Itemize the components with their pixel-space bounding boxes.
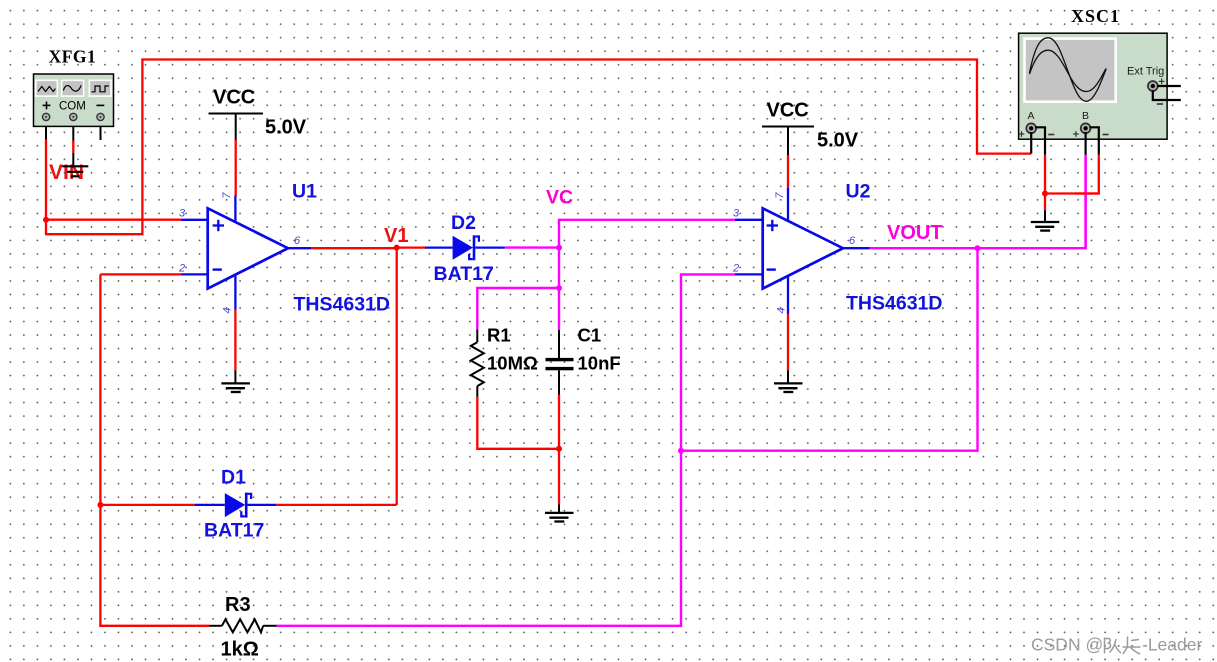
wire ext trig plus stub — [1157, 85, 1180, 87]
wire U1 inverting input to feedback column — [100, 273, 181, 275]
wire VCC2 supply to U2 pin7 — [787, 155, 789, 190]
wire scope B minus to ground net — [1045, 155, 1099, 194]
watermark CJK glyph 1 — [1105, 638, 1122, 654]
wire net V1: junction to D2 anode — [397, 246, 425, 248]
wire net VC: top of C1 stub — [558, 288, 560, 330]
svg-text:10MΩ: 10MΩ — [487, 353, 538, 374]
XFG1 minus terminal — [97, 113, 104, 120]
op-amp U1 triangle body — [208, 208, 288, 288]
XSC1 channel A minus hook — [1035, 127, 1045, 155]
label 1k ohm of R3 — [221, 639, 259, 661]
svg-text:BAT17: BAT17 — [434, 263, 494, 285]
svg-text:R3: R3 — [225, 594, 251, 616]
svg-text:VCC: VCC — [767, 100, 809, 122]
op-amp U1 pin2 stub — [181, 273, 209, 275]
junction node VOUT — [975, 245, 981, 251]
junction node R1/C1 bottom — [556, 446, 562, 452]
wire U1 pin4 to ground — [234, 310, 236, 371]
oscilloscope XSC1 box — [1019, 33, 1168, 139]
label 10nF of C1 — [578, 353, 621, 374]
junction node R1/C1 top — [556, 285, 562, 291]
U1 pin number 6 — [294, 235, 301, 247]
label U1 — [292, 181, 317, 203]
label XSC1 — [1071, 6, 1120, 26]
ground below C1 — [545, 504, 574, 521]
XFG1 sine-wave button — [62, 80, 84, 96]
ground at U1 pin4 — [221, 370, 250, 392]
svg-text:THS4631D: THS4631D — [294, 294, 390, 316]
ground at scope — [1031, 210, 1060, 230]
svg-text:U1: U1 — [292, 181, 317, 203]
op-amp U1 output stub pin6 — [288, 247, 311, 249]
label V1 — [384, 225, 408, 247]
op-amp U2 output stub pin6 — [843, 247, 870, 249]
ground at U2 pin4 — [774, 370, 803, 392]
diode D2 cathode pin — [475, 246, 504, 248]
wire XFG1 COM red segment — [72, 141, 74, 153]
wire net VOUT: U2 output to scope B — [870, 155, 1086, 248]
svg-text:3: 3 — [733, 208, 740, 220]
label XFG1 — [49, 47, 97, 67]
label R3 — [225, 594, 251, 616]
junction node V1 — [394, 245, 400, 251]
XFG1 plus label — [43, 102, 51, 110]
capacitor C1 top stub — [558, 330, 560, 358]
wire U2 pin4 to ground — [787, 313, 789, 370]
svg-text:6: 6 — [294, 235, 301, 247]
svg-text:XSC1: XSC1 — [1071, 6, 1120, 26]
resistor R3 right stub — [263, 625, 276, 627]
svg-text:B: B — [1082, 110, 1089, 122]
junction node VOUT feedback — [678, 448, 684, 454]
XSC1 ext trig minus mark — [1157, 103, 1163, 105]
svg-text:4: 4 — [221, 307, 233, 313]
resistor R3 left stub — [209, 625, 222, 627]
svg-text:3: 3 — [179, 208, 186, 220]
svg-text:V1: V1 — [384, 225, 408, 247]
svg-text:VCC: VCC — [213, 87, 255, 109]
label THS4631D of U2 — [846, 293, 942, 315]
XSC1 channel B minus mark — [1103, 134, 1109, 136]
XFG1 plus terminal stub — [45, 122, 47, 140]
resistor R3 zigzag body — [222, 619, 263, 632]
XSC1 channel A plus mark — [1019, 131, 1025, 137]
power VCC2 symbol — [762, 127, 814, 156]
diode D1 cathode pin — [246, 504, 276, 506]
op-amp U1 minus mark — [213, 268, 222, 270]
svg-text:BAT17: BAT17 — [204, 520, 264, 542]
op-amp U2 plus mark — [767, 220, 778, 231]
label Ext Trig — [1127, 66, 1164, 78]
label D1 — [221, 467, 246, 489]
label VCC2 — [767, 100, 809, 122]
resistor R1 zigzag body — [471, 342, 484, 386]
svg-text:Ext Trig: Ext Trig — [1127, 66, 1164, 78]
svg-text:D1: D1 — [221, 467, 246, 489]
wire scope B plus magenta — [1084, 155, 1086, 248]
function generator XFG1 box — [34, 74, 114, 126]
label VC — [546, 187, 573, 209]
diode D1 body BAT17 — [225, 493, 251, 518]
U2 pin number 7 — [774, 192, 786, 199]
U1 pin number 4 — [221, 307, 233, 313]
junction node scope ground — [1042, 191, 1048, 197]
svg-text:7: 7 — [774, 192, 786, 199]
XSC1 ext trig plus mark — [1159, 79, 1165, 85]
svg-text:4: 4 — [775, 307, 787, 313]
op-amp U2 triangle body — [763, 208, 843, 288]
label THS4631D of U1 — [294, 294, 390, 316]
resistor R1 bottom stub — [476, 386, 478, 397]
watermark CSDN — [1031, 635, 1103, 655]
watermark Leader — [1142, 635, 1202, 655]
wire scope A minus to ground net — [1044, 155, 1046, 210]
ground at XFG1 COM — [62, 153, 88, 177]
svg-text:COM: COM — [59, 101, 86, 113]
XFG1 minus terminal stub — [100, 122, 102, 140]
label BAT17 of D1 — [204, 520, 264, 542]
junction node at D1 anode branch — [97, 502, 103, 508]
op-amp U2 pin7 stub — [787, 188, 789, 224]
svg-text:THS4631D: THS4631D — [846, 293, 942, 315]
wire scope ground over crossing — [1075, 192, 1099, 194]
XFG1 minus label — [97, 104, 105, 106]
svg-text:6: 6 — [849, 235, 856, 247]
XSC1 channel B plus pin stub — [1084, 132, 1086, 155]
svg-text:5.0V: 5.0V — [265, 117, 307, 139]
op-amp U1 pin3 stub — [181, 219, 209, 221]
svg-text:10nF: 10nF — [578, 353, 621, 374]
XFG1 plus terminal — [43, 113, 50, 120]
XSC1 channel A terminal — [1026, 123, 1036, 133]
op-amp U2 pin4 stub — [787, 272, 789, 314]
wire VCC1 supply to U1 pin7 — [235, 139, 237, 196]
op-amp U1 pin4 stub — [234, 272, 236, 310]
wire net VOUT: junction down — [681, 248, 978, 451]
label VIN — [49, 161, 84, 184]
svg-text:VC: VC — [546, 187, 573, 209]
op-amp U1 plus mark — [213, 220, 224, 231]
svg-text:5.0V: 5.0V — [817, 130, 859, 152]
resistor R1 top stub — [476, 329, 478, 342]
op-amp U2 pin3 stub — [735, 219, 764, 221]
svg-text:U2: U2 — [846, 181, 871, 203]
wire net V1: D1 cathode to vertical — [276, 504, 397, 506]
label BAT17 of D2 — [434, 263, 494, 285]
wire junction to D1 anode — [100, 504, 194, 506]
diode D2 body BAT17 — [453, 235, 479, 260]
U2 pin number 3 — [733, 208, 740, 220]
U1 pin number 2 — [178, 263, 185, 275]
svg-text:CSDN @: CSDN @ — [1031, 635, 1103, 655]
svg-text:7: 7 — [221, 192, 233, 199]
wire C1 bottom red — [558, 395, 560, 505]
wire net V1: U1 output to junction — [311, 247, 397, 249]
watermark CJK glyph 2 — [1123, 637, 1141, 655]
power VCC1 symbol — [209, 114, 264, 140]
op-amp U2 minus mark — [767, 268, 776, 270]
svg-text:R1: R1 — [487, 325, 511, 346]
XFG1 triangle-wave button — [36, 80, 58, 96]
XSC1 channel B plus mark — [1073, 131, 1079, 137]
wire feedback column down to R3 — [100, 274, 209, 625]
label 10M ohm of R1 — [487, 353, 538, 374]
diode D1 anode pin — [195, 504, 225, 506]
wire net VOUT: feedback column to U2 pin2 and R3 — [277, 274, 736, 625]
wire net VC: top of R1 branch — [477, 288, 559, 329]
wire net VIN: long loop to oscilloscope channel A — [46, 60, 1031, 235]
XFG1 COM terminal — [70, 113, 77, 120]
XFG1 COM terminal stub — [72, 122, 74, 141]
svg-text:2: 2 — [732, 263, 739, 275]
XSC1 channel A plus pin stub — [1030, 132, 1032, 154]
svg-text:C1: C1 — [578, 325, 602, 346]
XSC1 screen trace B — [1030, 50, 1106, 91]
label D2 — [451, 212, 476, 234]
U2 pin number 6 — [849, 235, 856, 247]
wire net VIN: junction to U1 pin3 — [46, 219, 181, 221]
svg-text:-Leader: -Leader — [1142, 635, 1202, 655]
svg-text:VOUT: VOUT — [887, 222, 943, 244]
XSC1 channel B terminal — [1081, 123, 1091, 133]
XFG1 square-wave button — [89, 80, 111, 96]
XSC1 channel A minus mark — [1048, 134, 1054, 136]
svg-text:2: 2 — [178, 263, 185, 275]
U1 pin number 7 — [221, 192, 233, 199]
op-amp U1 pin7 stub — [234, 196, 236, 224]
capacitor C1 plates — [546, 358, 574, 370]
wire net VC: up and over to U2 pin3 — [559, 220, 735, 248]
label 5.0V at VCC2 — [817, 130, 859, 152]
junction node VC — [556, 245, 562, 251]
wire net VC: down to R1/C1 top — [558, 248, 560, 288]
XSC1 screen — [1023, 37, 1117, 103]
U1 pin number 3 — [179, 208, 186, 220]
wire R1 bottom red — [477, 397, 559, 449]
wire net VIN: XFG1 plus output down to junction — [45, 140, 47, 220]
label A channel — [1028, 110, 1035, 122]
wire ext trig hook stub — [1153, 91, 1181, 100]
svg-text:D2: D2 — [451, 212, 476, 234]
wire net V1: junction down to D1 level — [396, 248, 398, 505]
XFG1 COM label — [59, 101, 86, 113]
svg-text:1kΩ: 1kΩ — [221, 639, 259, 661]
wire net VC: D2 cathode to junction — [505, 246, 559, 248]
XSC1 screen trace A — [1030, 38, 1107, 102]
label 5.0V at VCC1 — [265, 117, 307, 139]
label VCC1 — [213, 87, 255, 109]
XSC1 channel B minus hook — [1089, 127, 1098, 155]
U2 pin number 2 — [732, 263, 739, 275]
svg-text:XFG1: XFG1 — [49, 47, 97, 67]
label R1 — [487, 325, 511, 346]
label U2 — [846, 181, 871, 203]
svg-text:A: A — [1028, 110, 1035, 122]
label B channel — [1082, 110, 1089, 122]
U2 pin number 4 — [775, 307, 787, 313]
label C1 — [578, 325, 602, 346]
op-amp U2 pin2 stub — [735, 273, 764, 275]
diode D2 anode pin — [425, 246, 453, 248]
XSC1 ext trig terminal — [1148, 81, 1158, 91]
capacitor C1 bottom stub — [558, 370, 560, 394]
junction node VIN — [43, 217, 49, 223]
label VOUT — [887, 222, 943, 244]
